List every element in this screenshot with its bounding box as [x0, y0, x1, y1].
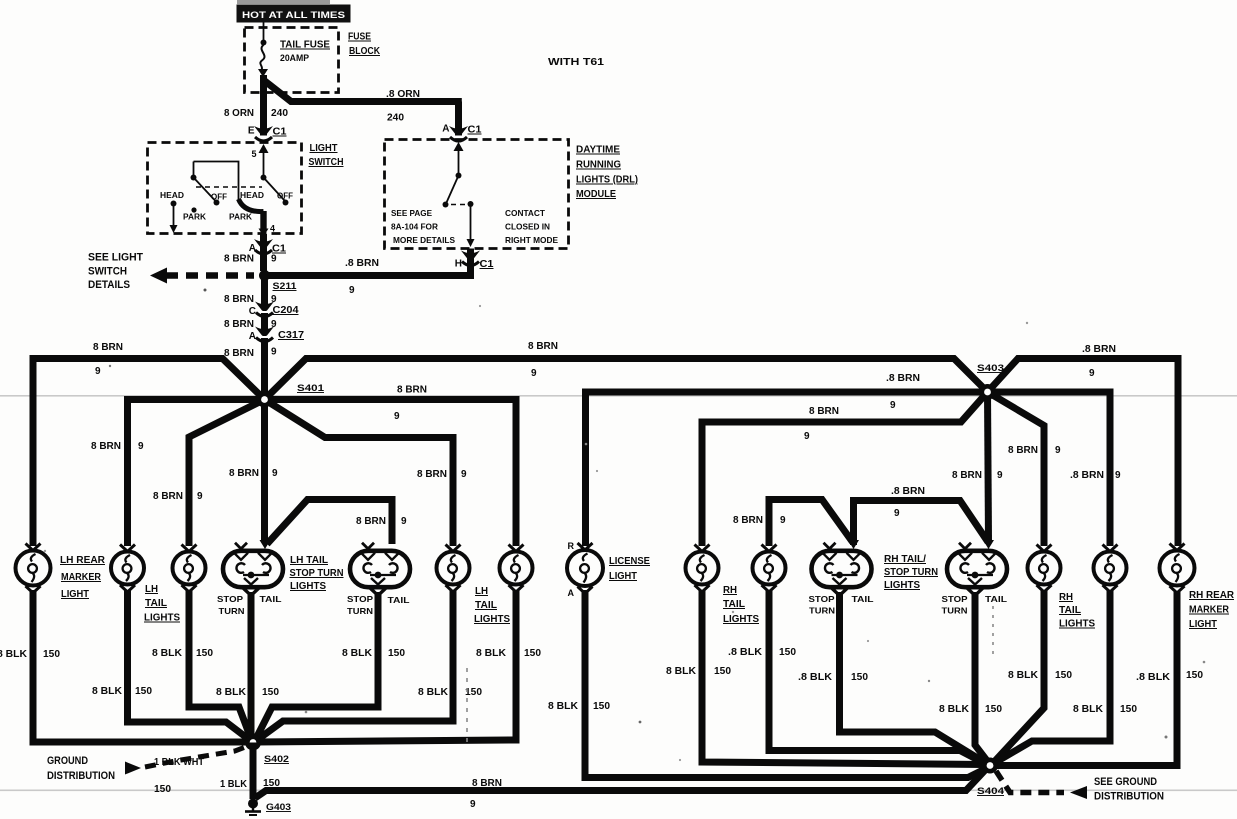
- wire: S401 upper-left to LH rear marker (8 BRN 9): [33, 342, 265, 546]
- svg-text:150: 150: [196, 648, 213, 659]
- svg-text:C317: C317: [278, 330, 304, 341]
- wire: RH lamp ground (.8 BLK 150): [728, 590, 984, 763]
- wire: S211 to C204: [224, 276, 277, 307]
- lamp E3: LH tail lamp C: [173, 545, 206, 593]
- svg-text:G403: G403: [266, 802, 291, 813]
- connector A C1 (light switch output): [224, 234, 286, 271]
- svg-text:9: 9: [1055, 445, 1061, 456]
- svg-text:8 BRN: 8 BRN: [93, 342, 123, 353]
- wire: S401 left to LH tail lamp B (8 BRN 9): [91, 400, 265, 547]
- wire: S401 to S403 long 8 BRN 9: [265, 341, 988, 400]
- svg-text:MARKER: MARKER: [1189, 605, 1230, 616]
- svg-text:E: E: [248, 126, 255, 137]
- svg-text:H: H: [455, 259, 462, 270]
- wire: LH dual lamp2 ground (8 BLK 150): [255, 592, 406, 742]
- splice S211: [259, 270, 297, 292]
- svg-text:8 BRN: 8 BRN: [397, 385, 427, 396]
- svg-text:RH: RH: [723, 585, 737, 596]
- svg-text:LIGHT: LIGHT: [61, 589, 89, 600]
- svg-text:150: 150: [524, 648, 541, 659]
- svg-text:240: 240: [387, 113, 404, 124]
- svg-text:TAIL: TAIL: [852, 594, 874, 604]
- lamp E15: RH rear marker light: [1160, 544, 1195, 594]
- svg-text:A: A: [568, 588, 575, 598]
- svg-text:STOP: STOP: [217, 594, 243, 604]
- connector C C204: [249, 302, 299, 318]
- svg-text:.8 BLK: .8 BLK: [1136, 672, 1171, 683]
- svg-text:R: R: [568, 541, 575, 551]
- svg-text:C1: C1: [468, 125, 482, 136]
- splice S401: [257, 383, 325, 408]
- label RH TAIL LIGHTS (right pair): [1059, 592, 1095, 630]
- lamp E1: LH rear marker light: [16, 544, 51, 594]
- svg-text:LIGHTS: LIGHTS: [290, 581, 326, 592]
- svg-text:8 BLK: 8 BLK: [1073, 704, 1104, 715]
- svg-text:9: 9: [95, 366, 101, 377]
- svg-text:9: 9: [997, 470, 1003, 481]
- connector E C1 (light switch): [248, 126, 287, 142]
- wire: S403 left to license light (.8 BRN 9): [586, 373, 988, 546]
- svg-text:TURN: TURN: [942, 606, 968, 616]
- svg-text:A: A: [442, 124, 449, 135]
- svg-text:OFF: OFF: [211, 193, 227, 202]
- svg-text:SEE LIGHT: SEE LIGHT: [88, 252, 143, 264]
- power label: HOT AT ALL TIMES: [237, 5, 351, 23]
- wire: S403 upper-right to RH rear marker (.8 BRN 9): [988, 344, 1179, 546]
- scan streaks: [237, 0, 330, 4]
- svg-text:MODULE: MODULE: [576, 189, 616, 200]
- svg-text:STOP TURN: STOP TURN: [290, 568, 344, 579]
- svg-text:9: 9: [894, 508, 900, 519]
- lamp E10: RH tail lamp: [753, 545, 786, 593]
- splice S404: [977, 758, 1005, 798]
- svg-text:C204: C204: [273, 305, 299, 316]
- svg-text:TURN: TURN: [219, 606, 245, 616]
- svg-text:LIGHTS: LIGHTS: [1059, 619, 1095, 630]
- svg-text:LH TAIL: LH TAIL: [290, 555, 328, 566]
- svg-text:PARK: PARK: [229, 213, 252, 222]
- svg-text:SEE GROUND: SEE GROUND: [1094, 776, 1157, 788]
- svg-text:S404: S404: [977, 786, 1005, 797]
- svg-text:8 BLK: 8 BLK: [92, 686, 123, 697]
- svg-text:SWITCH: SWITCH: [309, 157, 344, 168]
- label STOP TURN / TAIL (E4): [217, 594, 282, 616]
- svg-text:1 BLK WHT: 1 BLK WHT: [154, 757, 204, 768]
- svg-text:LH: LH: [475, 586, 488, 597]
- svg-text:TAIL FUSE: TAIL FUSE: [280, 40, 330, 51]
- lamp E8: license light: [567, 543, 603, 594]
- svg-text:C1: C1: [480, 259, 494, 270]
- svg-text:8 BLK: 8 BLK: [939, 704, 970, 715]
- label LH TAIL LIGHTS (left): [144, 584, 180, 624]
- svg-text:8 BLK: 8 BLK: [342, 648, 373, 659]
- svg-text:8 BRN: 8 BRN: [91, 441, 121, 452]
- svg-text:5: 5: [251, 149, 256, 159]
- svg-text:8 BRN: 8 BRN: [733, 515, 763, 526]
- svg-text:LH REAR: LH REAR: [60, 555, 106, 566]
- wire: LH marker ground (8 BLK 150): [0, 590, 250, 742]
- DRL module box: [385, 140, 569, 249]
- svg-text:LH: LH: [145, 584, 158, 595]
- wire: S403 lower-left to RH tail lamp (8 BRN 9): [702, 392, 988, 546]
- svg-text:S211: S211: [273, 281, 298, 292]
- svg-text:S402: S402: [264, 754, 289, 765]
- svg-text:8 BRN: 8 BRN: [224, 319, 254, 330]
- svg-text:LIGHTS: LIGHTS: [474, 614, 510, 625]
- svg-text:CLOSED IN: CLOSED IN: [505, 222, 550, 232]
- lamp E2: LH tail lamp B: [111, 545, 144, 593]
- svg-text:9: 9: [197, 491, 203, 502]
- svg-text:9: 9: [401, 516, 407, 527]
- svg-text:150: 150: [154, 784, 171, 795]
- svg-text:STOP: STOP: [809, 594, 835, 604]
- wire: lamp F ground (8 BLK 150): [255, 590, 482, 742]
- svg-text:RH TAIL/: RH TAIL/: [884, 554, 926, 565]
- svg-text:1 BLK: 1 BLK: [220, 779, 248, 790]
- svg-text:150: 150: [135, 686, 152, 697]
- svg-text:DETAILS: DETAILS: [88, 279, 130, 291]
- label LH TAIL LIGHTS (right): [474, 586, 510, 625]
- fuse block label: [348, 32, 381, 58]
- wire: S403 right to RH tail lamp (.8 BRN 9): [988, 392, 1122, 546]
- svg-text:HOT AT ALL TIMES: HOT AT ALL TIMES: [242, 10, 345, 21]
- lamp E13: RH tail lamp: [1028, 545, 1061, 593]
- splice S403: [977, 363, 1004, 400]
- svg-text:FUSE: FUSE: [348, 32, 371, 43]
- svg-text:150: 150: [43, 649, 60, 660]
- label STOP TURN / TAIL (E12): [942, 594, 1008, 616]
- svg-text:8 BRN: 8 BRN: [224, 294, 254, 305]
- off-page arrow: see light switch details: [88, 252, 254, 292]
- svg-text:BLOCK: BLOCK: [349, 46, 381, 57]
- lamp E12: RH tail/stop/turn dual lamp 2: [947, 543, 1007, 596]
- off-page arrow: ground distribution (1 BLK WHT 150): [47, 746, 248, 795]
- connector R C317: [249, 327, 305, 343]
- label RH TAIL LIGHTS (left pair): [723, 585, 759, 625]
- svg-text:9: 9: [138, 441, 144, 452]
- license connector pins R / A: [568, 541, 575, 598]
- off-page arrow: see ground distribution: [996, 771, 1164, 803]
- svg-text:TURN: TURN: [347, 606, 373, 616]
- wire: S401 down to LH tail/stop lamp tail terminal (8 BRN 9): [229, 400, 278, 550]
- svg-text:S403: S403: [977, 363, 1004, 374]
- wire: S401 right to LH tail lamp G (8 BRN 9): [265, 385, 517, 547]
- svg-text:9: 9: [272, 468, 278, 479]
- svg-text:150: 150: [779, 647, 796, 658]
- svg-text:RIGHT MODE: RIGHT MODE: [505, 235, 558, 245]
- wire: RH lamp ground (8 BLK 150): [666, 590, 985, 765]
- svg-text:OFF: OFF: [277, 192, 293, 201]
- light switch box: [148, 143, 302, 234]
- svg-text:9: 9: [349, 285, 355, 296]
- svg-text:MARKER: MARKER: [61, 572, 102, 583]
- svg-text:8 BRN: 8 BRN: [356, 516, 386, 527]
- svg-text:9: 9: [1115, 470, 1121, 481]
- svg-text:150: 150: [262, 687, 279, 698]
- svg-text:HEAD: HEAD: [160, 191, 184, 200]
- svg-text:PARK: PARK: [183, 213, 206, 222]
- wire: S403 down to RH dual2 tail (8 BRN 9): [952, 392, 1003, 549]
- svg-text:.8 BRN: .8 BRN: [345, 258, 379, 269]
- wire: jumper RH dual1 tail to RH dual2 tail (.8 BRN 9): [854, 486, 989, 545]
- svg-text:9: 9: [461, 469, 467, 480]
- fuse F: TAIL FUSE 20 AMP: [258, 23, 330, 78]
- wire: S401 lower-right to LH tail lamp F (8 BRN 9): [265, 400, 468, 547]
- svg-text:150: 150: [985, 704, 1002, 715]
- svg-text:8 BLK: 8 BLK: [1008, 670, 1039, 681]
- DRL internals: [391, 142, 558, 247]
- svg-text:8 ORN: 8 ORN: [224, 108, 254, 119]
- wire: LH dual lamp ground (8 BLK 150): [216, 592, 279, 740]
- svg-text:TAIL: TAIL: [723, 599, 745, 610]
- svg-text:TAIL: TAIL: [985, 594, 1007, 604]
- svg-text:MORE DETAILS: MORE DETAILS: [393, 235, 455, 245]
- label STOP TURN / TAIL (E5): [347, 594, 410, 616]
- svg-text:8 BLK: 8 BLK: [548, 701, 579, 712]
- svg-text:LIGHTS: LIGHTS: [884, 580, 920, 591]
- svg-text:RUNNING: RUNNING: [576, 160, 621, 171]
- svg-text:8 BRN: 8 BRN: [417, 469, 447, 480]
- svg-text:150: 150: [1186, 670, 1203, 681]
- wire: C317 to S401: [224, 338, 277, 396]
- svg-text:.8 BRN: .8 BRN: [1082, 344, 1116, 355]
- svg-text:8 BRN: 8 BRN: [809, 406, 839, 417]
- label STOP TURN / TAIL (E11): [809, 594, 874, 616]
- wire: lamp B ground (8 BLK 150): [92, 590, 251, 741]
- svg-text:.8 BLK: .8 BLK: [798, 672, 833, 683]
- svg-text:CONTACT: CONTACT: [505, 208, 546, 218]
- label RH TAIL/ STOP TURN LIGHTS: [884, 554, 938, 591]
- svg-text:8 BRN: 8 BRN: [224, 348, 254, 359]
- wire: jumper LH dual tail to dual tail (8 BRN 9): [267, 500, 407, 545]
- svg-text:RH REAR: RH REAR: [1189, 590, 1235, 601]
- svg-text:TAIL: TAIL: [260, 594, 282, 604]
- svg-text:240: 240: [271, 108, 288, 119]
- DRL module label: [576, 145, 638, 201]
- wire: C204 to C317: [224, 313, 277, 331]
- svg-text:8 BRN: 8 BRN: [472, 778, 502, 789]
- svg-text:DISTRIBUTION: DISTRIBUTION: [47, 770, 115, 782]
- fuse block box: [245, 28, 339, 93]
- svg-text:WITH T61: WITH T61: [548, 57, 605, 68]
- lamp E4: LH tail/stop/turn dual lamp: [223, 543, 283, 596]
- svg-text:8 BLK: 8 BLK: [216, 687, 247, 698]
- ground G403: [245, 799, 291, 816]
- svg-text:.8 BRN: .8 BRN: [1070, 470, 1104, 481]
- svg-text:LIGHTS (DRL): LIGHTS (DRL): [576, 175, 638, 186]
- svg-text:9: 9: [394, 411, 400, 422]
- svg-text:8 BRN: 8 BRN: [224, 254, 254, 265]
- svg-text:LICENSE: LICENSE: [609, 556, 650, 567]
- svg-text:STOP TURN: STOP TURN: [884, 567, 938, 578]
- lamp E11: RH tail/stop/turn dual lamp: [812, 543, 872, 596]
- connector A C1 (DRL module): [442, 124, 482, 142]
- wire: lamp G ground (8 BLK 150): [256, 590, 541, 742]
- connector H C1 (DRL output) and wire to S211: [264, 249, 494, 297]
- svg-text:C1: C1: [273, 127, 287, 138]
- svg-text:LIGHTS: LIGHTS: [144, 613, 180, 624]
- svg-text:.8 ORN: .8 ORN: [386, 89, 420, 100]
- svg-text:8 BLK: 8 BLK: [0, 649, 28, 660]
- svg-text:TURN: TURN: [809, 606, 835, 616]
- wire: G403 to S404 (8 BRN 9): [255, 767, 988, 810]
- svg-text:8 BLK: 8 BLK: [418, 687, 449, 698]
- svg-text:150: 150: [1055, 670, 1072, 681]
- svg-text:HEAD: HEAD: [240, 191, 264, 200]
- svg-text:150: 150: [1120, 704, 1137, 715]
- svg-text:LIGHT: LIGHT: [1189, 619, 1217, 630]
- label LICENSE LIGHT: [609, 556, 650, 582]
- lamp E14: RH tail lamp: [1094, 545, 1127, 593]
- svg-text:LIGHT: LIGHT: [310, 143, 338, 154]
- svg-text:TAIL: TAIL: [145, 598, 167, 609]
- svg-text:8A-104 FOR: 8A-104 FOR: [391, 222, 438, 232]
- light switch label: [309, 143, 344, 168]
- svg-text:TAIL: TAIL: [1059, 605, 1081, 616]
- svg-text:9: 9: [780, 515, 786, 526]
- lamp E9: RH tail lamp: [686, 545, 719, 593]
- svg-text:9: 9: [271, 254, 277, 265]
- svg-text:9: 9: [531, 368, 537, 379]
- wire: S403 lower-right to RH tail lamp (8 BRN 9): [988, 392, 1062, 546]
- svg-text:SEE PAGE: SEE PAGE: [391, 208, 432, 218]
- wire: RH lamp ground (8 BLK 150) right2: [996, 590, 1137, 762]
- svg-text:9: 9: [271, 347, 277, 358]
- wire: RH dual1 ground (.8 BLK 150): [798, 592, 984, 762]
- svg-text:LIGHT: LIGHT: [609, 571, 637, 582]
- svg-text:20AMP: 20AMP: [280, 53, 309, 63]
- svg-text:LIGHTS: LIGHTS: [723, 614, 759, 625]
- splice S402: [245, 735, 289, 766]
- svg-text:4: 4: [270, 224, 275, 234]
- scan fold marks: [466, 668, 468, 748]
- wire: 8 ORN 240 fuse to light switch E C1: [224, 75, 288, 136]
- wire: .8 ORN 240 fuse to DRL module A C1: [264, 80, 462, 136]
- svg-text:9: 9: [804, 431, 810, 442]
- wire: license ground (8 BLK 150): [548, 590, 987, 778]
- svg-text:150: 150: [388, 648, 405, 659]
- svg-text:9: 9: [470, 799, 476, 810]
- svg-text:8 BLK: 8 BLK: [476, 648, 507, 659]
- wire: RH marker ground (.8 BLK 150): [995, 592, 1203, 766]
- svg-text:STOP: STOP: [942, 594, 968, 604]
- svg-text:150: 150: [851, 672, 868, 683]
- svg-text:SWITCH: SWITCH: [88, 266, 127, 278]
- wire: jumper RH tail lamp to RH dual1 tail (8 BRN 9): [733, 500, 859, 550]
- svg-text:150: 150: [714, 666, 731, 677]
- svg-text:8 BRN: 8 BRN: [153, 491, 183, 502]
- svg-text:8 BLK: 8 BLK: [152, 648, 183, 659]
- svg-text:8 BRN: 8 BRN: [229, 468, 259, 479]
- svg-text:DISTRIBUTION: DISTRIBUTION: [1094, 791, 1164, 803]
- svg-text:8 BRN: 8 BRN: [1008, 445, 1038, 456]
- lamp E6: LH tail lamp F: [437, 545, 470, 593]
- label LH TAIL STOP TURN LIGHTS: [290, 555, 344, 592]
- svg-text:C: C: [249, 306, 256, 317]
- svg-text:RH: RH: [1059, 592, 1073, 603]
- svg-text:8 BRN: 8 BRN: [952, 470, 982, 481]
- svg-text:TAIL: TAIL: [388, 595, 410, 605]
- svg-text:DAYTIME: DAYTIME: [576, 145, 620, 156]
- svg-text:8 BLK: 8 BLK: [666, 666, 697, 677]
- wire: S402 to ground G403 (1 BLK 150): [220, 743, 280, 800]
- svg-text:A: A: [249, 243, 256, 254]
- svg-text:9: 9: [890, 400, 896, 411]
- svg-text:9: 9: [1089, 368, 1095, 379]
- svg-text:.8 BLK: .8 BLK: [728, 647, 763, 658]
- label RH REAR MARKER LIGHT: [1189, 590, 1235, 630]
- svg-text:.8 BRN: .8 BRN: [891, 486, 925, 497]
- svg-text:150: 150: [593, 701, 610, 712]
- svg-text:TAIL: TAIL: [475, 600, 497, 611]
- svg-text:STOP: STOP: [347, 594, 373, 604]
- svg-text:A: A: [249, 331, 256, 342]
- light switch internals: [160, 144, 293, 237]
- svg-text:.8 BRN: .8 BRN: [886, 373, 920, 384]
- lamp E7: LH tail lamp G: [500, 545, 533, 593]
- svg-text:8 BRN: 8 BRN: [528, 341, 558, 352]
- label LH REAR MARKER LIGHT: [60, 555, 106, 600]
- wire: S401 lower-left to LH tail lamp C (8 BRN 9): [153, 400, 265, 547]
- wire: RH dual2 ground (8 BLK 150): [939, 592, 1002, 762]
- scan speckles: [204, 289, 207, 292]
- svg-text:GROUND: GROUND: [47, 755, 88, 767]
- wire: lamp C ground (8 BLK 150): [152, 590, 252, 742]
- wire: RH lamp ground (8 BLK 150) right1: [994, 590, 1072, 762]
- lamp E5: LH tail/stop/turn dual lamp 2: [350, 543, 410, 596]
- svg-text:S401: S401: [297, 383, 325, 394]
